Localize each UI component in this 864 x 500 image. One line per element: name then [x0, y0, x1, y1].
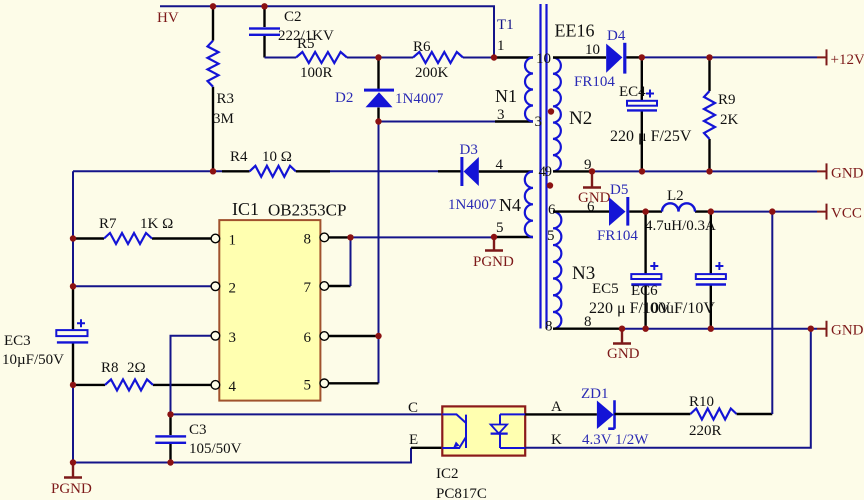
- junction HV rail / C2: [261, 3, 267, 9]
- svg-text:L2: L2: [667, 188, 684, 204]
- wire N2 pin10 to D4: [553, 56, 606, 58]
- resistor R5: [296, 36, 347, 81]
- junction bottom rail / PGND: [70, 459, 76, 465]
- svg-text:N2: N2: [569, 108, 592, 129]
- svg-text:5: 5: [496, 220, 504, 236]
- wire N2 pin9 to GND rail: [553, 170, 592, 172]
- svg-text:4.3V 1/2W: 4.3V 1/2W: [582, 432, 649, 448]
- svg-text:D2: D2: [335, 90, 353, 106]
- svg-text:R9: R9: [718, 92, 736, 108]
- svg-text:2K: 2K: [720, 112, 739, 128]
- wire R4 to D3: [330, 170, 438, 172]
- svg-text:4.7uH/0.3A: 4.7uH/0.3A: [645, 218, 716, 234]
- wire junction to N1 pin1: [494, 56, 533, 58]
- svg-text:IC1: IC1: [232, 199, 259, 219]
- capacitor C2: [249, 6, 334, 57]
- zener ZD1: [581, 386, 649, 448]
- svg-text:1: 1: [229, 233, 237, 249]
- photodiode inside IC2: [491, 414, 526, 448]
- svg-text:1K Ω: 1K Ω: [140, 216, 173, 232]
- svg-text:EC6: EC6: [631, 283, 658, 299]
- wire +12V rail: [642, 56, 817, 58]
- ground symbol PGND at N4 pin5: [473, 237, 514, 270]
- svg-text:10: 10: [585, 42, 600, 58]
- svg-text:R7: R7: [99, 216, 117, 232]
- resistor R8: [101, 360, 153, 390]
- wire pin7 riser: [329, 285, 351, 287]
- wire pin3 to C node: [171, 336, 212, 415]
- port GND mid: [817, 163, 864, 181]
- junction R5-R6 row / D2: [375, 54, 381, 60]
- wire K to GND riser: [525, 329, 811, 448]
- wire R7 row: [73, 237, 211, 239]
- wire VCC rail: [711, 211, 817, 213]
- junction pin3 riser / C wire: [167, 411, 173, 417]
- diode D2: [335, 58, 444, 122]
- svg-text:R10: R10: [689, 394, 714, 410]
- wire N1 pin3 lead: [495, 120, 533, 122]
- resistor R4 right lead / diode D3 anode lead: [296, 170, 461, 172]
- svg-text:D4: D4: [607, 28, 626, 44]
- wire N1 pin3 row: [379, 121, 496, 123]
- resistor R7: [99, 216, 173, 244]
- IC1 OB2353CP: [219, 199, 346, 401]
- winding N2: [553, 58, 592, 172]
- pin 7 circle: [320, 282, 329, 291]
- junction drain riser / pin6: [375, 333, 381, 339]
- capacitor EC3: [2, 319, 88, 368]
- junction T1 corner / N1 pin1: [491, 54, 497, 60]
- wire R5 to R6: [347, 57, 413, 59]
- wire D2 anode to IC1 drain (vertical): [378, 122, 380, 384]
- svg-text:GND: GND: [831, 323, 864, 339]
- svg-text:R3: R3: [217, 91, 235, 107]
- ground symbol at pin9: [578, 171, 611, 206]
- svg-text:PGND: PGND: [473, 254, 514, 270]
- svg-text:10 Ω: 10 Ω: [262, 149, 292, 165]
- svg-text:3: 3: [497, 107, 505, 123]
- wire N3 pin8 to GND rail bottom: [553, 328, 622, 330]
- svg-text:HV: HV: [157, 10, 179, 26]
- wire R10 to VCC rail riser: [737, 413, 773, 415]
- svg-text:1N4007: 1N4007: [448, 197, 497, 213]
- junction C3 / bottom rail: [167, 459, 173, 465]
- resistor R9: [704, 57, 739, 171]
- svg-text:5: 5: [304, 377, 312, 393]
- wire pin6: [329, 335, 379, 337]
- wire D3 to N4 pin4: [479, 170, 533, 172]
- svg-text:6: 6: [548, 202, 556, 218]
- svg-text:N1: N1: [495, 86, 517, 106]
- ground symbol PGND bottom left: [51, 463, 92, 498]
- svg-text:R5: R5: [297, 36, 315, 52]
- left rail (R4 corner down to PGND): [72, 171, 74, 462]
- svg-text:3M: 3M: [213, 111, 234, 127]
- junction D4 / EC4: [639, 54, 645, 60]
- junction R9 / GND rail: [706, 168, 712, 174]
- wire A to ZD1: [525, 413, 597, 415]
- svg-text:8: 8: [545, 319, 553, 335]
- svg-text:C: C: [408, 400, 418, 416]
- port GND bottom: [817, 321, 864, 339]
- junction L2 / EC6: [708, 208, 714, 214]
- svg-text:10: 10: [536, 51, 551, 67]
- svg-text:3: 3: [535, 114, 543, 130]
- diode D3: [448, 142, 497, 213]
- svg-text:T1: T1: [497, 17, 514, 33]
- pin 6 circle: [320, 332, 329, 341]
- svg-text:IC2: IC2: [436, 466, 459, 482]
- svg-text:105/50V: 105/50V: [189, 441, 242, 457]
- wire pin8 row: [351, 236, 496, 238]
- svg-text:+12V: +12V: [831, 52, 864, 68]
- svg-text:EC4: EC4: [619, 84, 646, 100]
- winding N3: [553, 212, 595, 329]
- svg-text:D5: D5: [610, 182, 628, 198]
- winding N4: [499, 172, 533, 238]
- port +12V: [817, 49, 864, 68]
- svg-text:100uF/10V: 100uF/10V: [642, 300, 715, 317]
- junction EC6 / GND rail: [708, 326, 714, 332]
- resistor R10: [689, 394, 737, 439]
- pin 2 circle: [211, 282, 220, 291]
- diode D5: [597, 182, 646, 244]
- wire R6 to T1 pin1: [463, 57, 494, 59]
- resistor R4: [230, 149, 296, 177]
- svg-text:EE16: EE16: [555, 20, 595, 40]
- svg-text:E: E: [409, 432, 418, 448]
- svg-text:8: 8: [304, 232, 312, 248]
- svg-text:1N4007: 1N4007: [395, 91, 444, 107]
- svg-text:C2: C2: [284, 9, 302, 25]
- svg-text:C3: C3: [189, 422, 207, 438]
- junction D2 anode / N1 pin3: [375, 118, 381, 124]
- svg-text:N4: N4: [499, 195, 521, 215]
- wire R4 row left: [73, 170, 222, 172]
- wire R8 row: [73, 384, 211, 386]
- IC2 PC817C optocoupler: [436, 406, 525, 500]
- diode D4: [574, 28, 642, 90]
- junction R3 / R4 row: [210, 168, 216, 174]
- junction HV rail / R3: [210, 3, 216, 9]
- svg-text:5: 5: [547, 228, 555, 244]
- polarity dot N2 top: [548, 108, 554, 114]
- port VCC: [817, 204, 862, 222]
- pin 5 circle: [320, 379, 329, 388]
- svg-text:2Ω: 2Ω: [127, 360, 146, 376]
- junction D5 / EC5 / L2: [642, 208, 648, 214]
- svg-text:7: 7: [304, 280, 312, 296]
- svg-text:220 μ F/25V: 220 μ F/25V: [610, 128, 692, 145]
- svg-text:220R: 220R: [689, 423, 722, 439]
- svg-text:FR104: FR104: [597, 228, 638, 244]
- winding N1: [495, 58, 533, 122]
- svg-text:PGND: PGND: [51, 481, 92, 497]
- svg-text:4: 4: [229, 379, 237, 395]
- transformer T1 core: [541, 4, 547, 329]
- wire bottom PGND rail: [73, 448, 411, 463]
- capacitor EC4: [610, 57, 692, 171]
- svg-text:GND: GND: [607, 346, 640, 362]
- svg-text:VCC: VCC: [831, 206, 862, 222]
- pin 3 circle: [211, 332, 220, 341]
- svg-text:PC817C: PC817C: [436, 486, 487, 500]
- junction EC5 / GND rail: [642, 326, 648, 332]
- junction GND rail / K riser: [808, 326, 814, 332]
- svg-text:FR104: FR104: [574, 74, 615, 90]
- svg-text:9: 9: [545, 164, 553, 180]
- resistor R4 left lead: [222, 170, 250, 172]
- wire C row to IC2: [171, 413, 444, 415]
- junction N3 pin8 / GND symbol: [619, 326, 625, 332]
- polarity dot N2 bottom: [547, 182, 553, 188]
- svg-text:4: 4: [496, 157, 504, 173]
- svg-text:200K: 200K: [415, 65, 449, 81]
- transistor Q inside IC2: [442, 414, 466, 448]
- wire top HV rail: [160, 6, 494, 57]
- svg-text:3: 3: [229, 330, 237, 346]
- capacitor EC6: [631, 212, 726, 329]
- svg-text:R8: R8: [101, 360, 119, 376]
- junction pin8 / pin7 riser: [347, 234, 353, 240]
- svg-text:EC3: EC3: [4, 333, 31, 349]
- wire pin2 row: [73, 285, 211, 287]
- svg-text:1: 1: [497, 38, 505, 54]
- resistor R6: [413, 39, 463, 81]
- capacitor C3: [155, 414, 241, 462]
- svg-text:6: 6: [304, 330, 312, 346]
- ground symbol at pin8: [607, 329, 640, 362]
- wire C2 to R5: [265, 57, 297, 59]
- svg-text:A: A: [551, 399, 562, 415]
- wire E lead to IC2: [411, 447, 443, 449]
- wire N3 pin6 to D5: [553, 210, 609, 212]
- junction VCC rail / R10 riser: [769, 208, 775, 214]
- resistor R3: [208, 6, 235, 171]
- junction left rail / R7: [70, 235, 76, 241]
- pin 4 circle: [211, 381, 220, 390]
- pin 8 circle: [320, 233, 329, 242]
- svg-text:D3: D3: [460, 142, 478, 158]
- wire ZD1 to R10: [615, 413, 691, 415]
- svg-text:100R: 100R: [300, 65, 333, 81]
- inductor L2: [645, 188, 716, 234]
- pin 1 circle: [211, 234, 220, 243]
- junction N2 pin9 / GND symbol: [589, 168, 595, 174]
- junction EC4 / GND rail: [639, 168, 645, 174]
- svg-text:10µF/50V: 10µF/50V: [2, 352, 64, 368]
- svg-text:GND: GND: [831, 166, 864, 182]
- svg-text:GND: GND: [578, 190, 611, 206]
- svg-text:R4: R4: [230, 149, 248, 165]
- svg-text:ZD1: ZD1: [581, 386, 609, 402]
- svg-text:R6: R6: [413, 39, 431, 55]
- junction +12V rail / R9: [706, 54, 712, 60]
- svg-text:OB2353CP: OB2353CP: [268, 201, 346, 220]
- junction left rail / R8: [70, 382, 76, 388]
- capacitor EC3 leads: [72, 286, 74, 385]
- junction N4 pin5 / PGND: [491, 234, 497, 240]
- svg-text:K: K: [551, 432, 562, 448]
- capacitor EC5: [589, 212, 671, 329]
- svg-text:EC5: EC5: [592, 281, 619, 297]
- svg-text:2: 2: [229, 280, 237, 296]
- wire pin5: [329, 382, 379, 384]
- junction left rail / pin2: [70, 283, 76, 289]
